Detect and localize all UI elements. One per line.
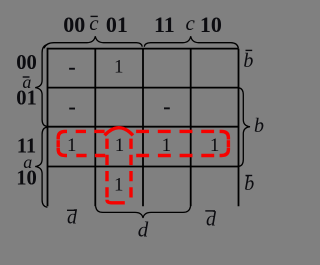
braces bbox=[35, 36, 250, 218]
svg-text:00: 00 bbox=[63, 12, 85, 37]
c-bar overline bbox=[91, 15, 98, 17]
grid line row 00/01 bbox=[48, 87, 239, 89]
top brace c (cols 11,10) bbox=[144, 36, 238, 48]
cell (00,00) dash bbox=[69, 68, 75, 70]
svg-text:c: c bbox=[89, 11, 99, 35]
grid left edge bbox=[47, 48, 49, 207]
row-loop right mid dash bbox=[227, 140, 230, 147]
left edge labels bbox=[16, 52, 37, 190]
a-bar overline bbox=[23, 76, 30, 78]
svg-text:c: c bbox=[186, 11, 196, 35]
grid right edge bbox=[238, 49, 240, 207]
svg-text:1: 1 bbox=[162, 135, 172, 156]
d-bar overline (right) bbox=[205, 210, 215, 212]
b-bar overline (top) bbox=[246, 49, 253, 51]
row-loop left mid dash bbox=[57, 140, 60, 147]
bridge arc over row-group edge bbox=[105, 128, 133, 136]
svg-text:1: 1 bbox=[210, 135, 220, 156]
column-loop right edge bbox=[129, 139, 132, 200]
row-loop corner top-left bbox=[58, 131, 67, 139]
row-loop bottom run left of crossing bbox=[71, 154, 106, 157]
row-loop corner top-right bbox=[220, 131, 229, 139]
cell (01,11) dash bbox=[164, 107, 170, 109]
svg-text:00: 00 bbox=[16, 52, 37, 74]
column-loop bottom corner and dash bbox=[107, 200, 125, 203]
row-loop top run left of bridge bbox=[71, 130, 105, 133]
svg-text:b: b bbox=[254, 115, 264, 137]
bottom brace d (cols 01,11) bbox=[96, 207, 191, 218]
grid line row 01/11 bbox=[48, 126, 239, 128]
cell (01,00) dash bbox=[69, 108, 75, 110]
svg-text:1: 1 bbox=[114, 175, 124, 196]
column-loop left edge bbox=[105, 139, 108, 198]
row-loop corner bottom-right bbox=[220, 148, 229, 156]
svg-text:1: 1 bbox=[67, 135, 77, 156]
svg-text:d: d bbox=[206, 208, 217, 230]
red group: row 11 (horizontal loop) bbox=[58, 131, 228, 155]
svg-text:11: 11 bbox=[154, 12, 175, 37]
svg-text:1: 1 bbox=[114, 57, 124, 78]
row-loop bottom run right of crossing bbox=[136, 154, 218, 157]
top brace c-bar (cols 00,01) bbox=[44, 36, 142, 48]
red group: column 01 rows 11,10 (vertical loop) bbox=[105, 128, 133, 203]
grid line col 00/01 bbox=[94, 49, 96, 207]
svg-text:b: b bbox=[243, 50, 253, 72]
svg-text:01: 01 bbox=[106, 12, 128, 37]
row-loop top run right of bridge bbox=[136, 130, 218, 133]
left brace a-bar (rows 00,01) bbox=[35, 45, 47, 127]
svg-text:a: a bbox=[23, 152, 32, 172]
cell contents bbox=[67, 57, 219, 196]
svg-text:d: d bbox=[138, 218, 149, 242]
svg-text:a: a bbox=[22, 72, 31, 92]
svg-text:10: 10 bbox=[200, 12, 222, 37]
svg-text:b: b bbox=[244, 173, 254, 195]
grid top edge bbox=[48, 48, 239, 50]
left brace a (rows 11,10) bbox=[35, 127, 47, 207]
svg-text:1: 1 bbox=[115, 135, 125, 156]
right brace b (rows 01,11) bbox=[239, 88, 250, 167]
grid line col 01/11 bbox=[142, 49, 144, 207]
top edge labels bbox=[63, 12, 222, 37]
grid line col 11/10 bbox=[190, 49, 192, 207]
K-map grid bbox=[48, 48, 239, 207]
b-bar overline (bottom) bbox=[246, 175, 253, 177]
d-bar overline (left) bbox=[67, 209, 77, 211]
grid line row 11/10 bbox=[48, 166, 239, 168]
row-loop corner bottom-left bbox=[58, 148, 67, 156]
